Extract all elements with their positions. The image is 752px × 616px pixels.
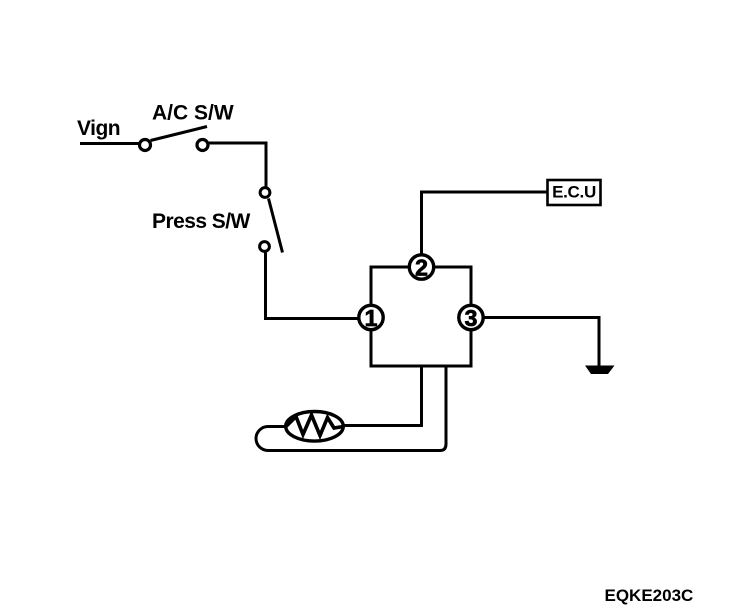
pin 3 terminal [459,305,483,329]
switch S2 Press arm [269,199,283,253]
E.C.U box U1 [548,180,601,205]
ground [585,366,615,375]
svg-text:Press S/W: Press S/W [152,210,250,233]
wire box bottom loop to thermistor left [256,366,446,451]
wire Press S/W to pin 1 [266,253,359,319]
switch S1 A/C left contact [140,140,151,151]
pin 2 terminal [409,255,433,279]
switch S1 A/C right contact [197,140,208,151]
svg-text:EQKE203C: EQKE203C [605,586,694,605]
switch S1 A/C arm [151,127,208,141]
svg-text:3: 3 [465,305,478,331]
wire from A/C S/W to Press S/W [209,143,267,187]
compressor box [371,267,471,366]
svg-text:E.C.U: E.C.U [552,183,596,202]
switch S2 Press upper contact [260,188,270,198]
pin 1 terminal [359,305,383,329]
wire pin under box to thermistor right [344,366,422,426]
svg-text:Vign: Vign [77,117,120,140]
thermistor TH1 body [286,412,344,442]
wire Vign lead [80,142,139,145]
svg-text:2: 2 [415,255,428,281]
switch S2 Press lower contact [260,242,270,252]
wire pin 2 to E.C.U [422,192,548,255]
thermistor TH1 zigzag [286,415,344,436]
svg-text:1: 1 [365,305,378,331]
svg-text:A/C S/W: A/C S/W [152,102,234,125]
wire pin 3 to ground [484,318,600,367]
